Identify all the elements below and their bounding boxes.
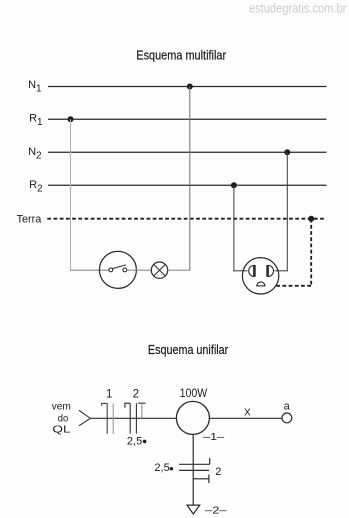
label N1	[28, 79, 42, 94]
switch lever	[112, 265, 126, 269]
svg-text:Esquema unifilar: Esquema unifilar	[148, 342, 229, 357]
svg-text:QL: QL	[52, 424, 70, 436]
wire feeder to lamp	[90, 417, 176, 419]
svg-text:a: a	[284, 400, 291, 412]
wire switch to lamp	[127, 269, 152, 271]
wire lamp to riser	[168, 269, 191, 271]
svg-text:estudegratis.com.br: estudegratis.com.br	[249, 1, 347, 16]
bus R1	[48, 118, 327, 120]
svg-text:–2–: –2–	[205, 506, 227, 517]
label 2,5 bullet (group 2)	[127, 435, 147, 447]
label 2 (vertical group)	[215, 466, 221, 478]
junction dot N1	[187, 84, 193, 90]
bus N2	[48, 151, 327, 153]
bus N1	[48, 86, 327, 88]
wire drop from N2 to outlet	[275, 152, 288, 271]
ground symbol	[187, 505, 200, 514]
label Terra	[17, 213, 43, 225]
feeder chevron	[79, 410, 90, 426]
node a circle	[282, 413, 292, 423]
lamp L1 circle	[151, 262, 167, 278]
dashed ground wire horizontal	[276, 285, 312, 287]
svg-text:Terra: Terra	[17, 213, 43, 225]
wire riser to N1	[189, 87, 191, 271]
label vem do QL	[52, 400, 72, 435]
label X	[244, 407, 251, 418]
title Esquema multifilar	[136, 47, 226, 62]
svg-text:100W: 100W	[180, 388, 208, 400]
watermark estudegratis.com.br	[249, 1, 347, 16]
title Esquema unifilar	[148, 342, 229, 357]
svg-text:R1: R1	[29, 113, 43, 128]
junction dot N2	[284, 149, 290, 155]
label a	[284, 400, 291, 412]
outlet pin left	[249, 265, 256, 277]
conductor group vertical ticks	[179, 458, 210, 483]
svg-text:2: 2	[215, 466, 221, 478]
label R2	[29, 179, 43, 194]
wire lamp to point a	[210, 417, 282, 419]
label 2	[133, 388, 139, 400]
junction dot Terra	[308, 216, 314, 222]
wire drop from R1 to switch	[70, 119, 72, 270]
svg-text:2: 2	[133, 388, 139, 400]
lamp 100W circle	[176, 401, 209, 434]
conductor group 2	[125, 403, 146, 433]
outlet ground contact	[256, 282, 265, 286]
svg-text:–1–: –1–	[203, 432, 224, 443]
label -1-	[203, 432, 224, 443]
label 1	[106, 388, 112, 400]
wire lamp to ground	[192, 434, 194, 504]
svg-text:R2: R2	[29, 179, 43, 194]
switch contact right	[123, 268, 127, 272]
wire drop from R2 to outlet	[233, 185, 247, 271]
bus Terra dashed	[47, 218, 326, 220]
svg-text:2,5: 2,5	[154, 462, 169, 474]
svg-text:vem: vem	[52, 400, 72, 412]
wire horizontal into switch	[70, 269, 109, 271]
outlet pin right	[266, 265, 273, 277]
svg-text:2,5: 2,5	[127, 435, 142, 447]
svg-text:1: 1	[106, 388, 112, 400]
switch contact left	[109, 268, 113, 272]
svg-text:X: X	[244, 407, 251, 418]
dashed ground wire vertical	[310, 219, 312, 286]
label N2	[28, 146, 42, 161]
svg-text:N2: N2	[28, 146, 42, 161]
svg-text:Esquema multifilar: Esquema multifilar	[136, 47, 226, 62]
junction dot R1	[68, 116, 74, 122]
bus R2	[48, 184, 327, 186]
outlet X1 circle	[242, 258, 278, 294]
junction dot R2	[231, 182, 237, 188]
switch S1 circle	[99, 251, 136, 288]
label 100W	[180, 388, 208, 400]
conductor group 1	[102, 403, 114, 434]
label -2-	[205, 506, 227, 517]
label R1	[29, 113, 43, 128]
svg-text:N1: N1	[28, 79, 42, 94]
label 2,5 bullet (vertical)	[154, 462, 173, 474]
